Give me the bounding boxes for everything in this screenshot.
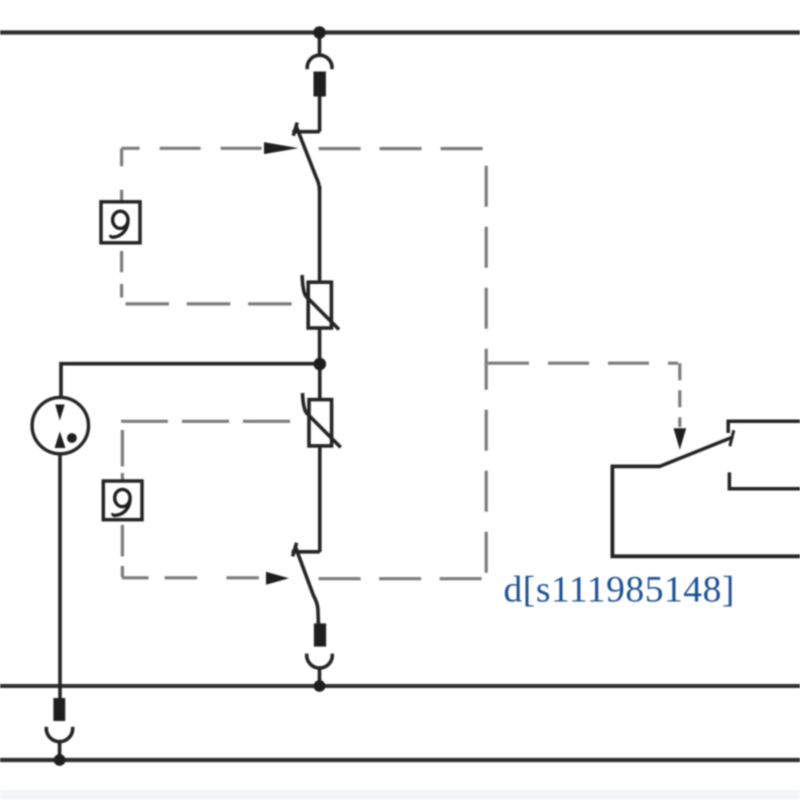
svg-text:d[s111985148]: d[s111985148] xyxy=(504,570,735,611)
